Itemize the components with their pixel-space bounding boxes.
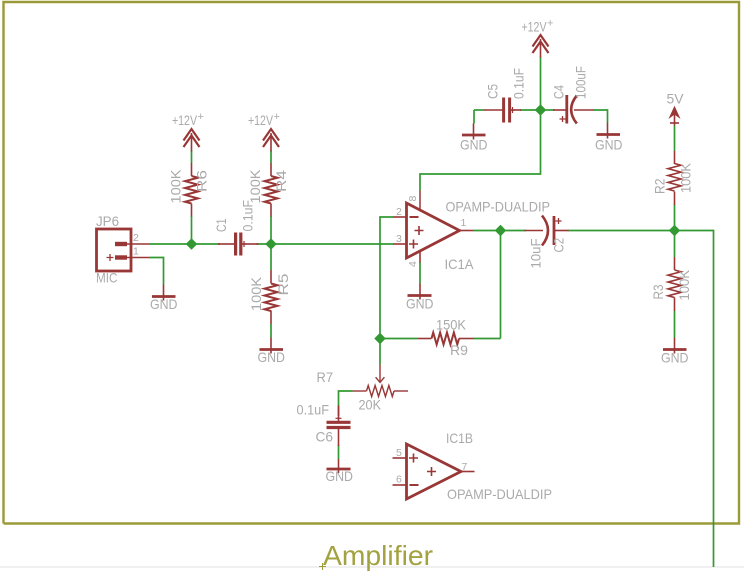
wire 5V to R2 [674,126,676,152]
wire R2 to node3 [674,205,676,231]
pin 2 stub [393,216,407,218]
supply +12V (top) [533,35,549,58]
connector JP6 [97,229,150,271]
svg-text:JP6: JP6 [96,214,119,229]
svg-text:GND: GND [406,297,434,312]
plus polarity mark [560,116,566,122]
frame bottom faint line [0,566,744,568]
wire C1 to op-amp pin3 [257,243,394,245]
svg-text:100K: 100K [169,170,184,204]
supply +12V (R4) [263,129,279,152]
pin 7 stub [461,471,475,473]
wire R3 to GND [674,311,676,338]
svg-text:150K: 150K [436,318,466,333]
svg-text:OPAMP-DUALDIP: OPAMP-DUALDIP [447,487,552,502]
svg-text:R6: R6 [195,170,210,192]
svg-text:5V: 5V [667,92,685,107]
wire C5 corner down to GND [473,110,475,124]
resistor R2 [668,151,681,205]
title origin cross [319,563,326,570]
svg-text:100K: 100K [677,270,692,301]
svg-text:R9: R9 [450,343,468,358]
svg-text:+: + [274,111,280,123]
resistor R3 [668,257,681,311]
svg-text:C4: C4 [552,85,567,99]
svg-text:+12V: +12V [522,20,548,35]
plus mark pin3 [409,240,418,249]
pin 1 stub [460,230,474,232]
svg-text:0.1uF: 0.1uF [512,68,527,99]
wiper arrow [379,365,381,383]
wire node1 up to R6 [191,216,193,244]
svg-text:C2: C2 [552,238,567,253]
svg-text:4: 4 [407,261,419,267]
wire node2 up to R4 [270,216,272,244]
svg-text:7: 7 [462,461,468,473]
pin 6 stub [393,484,407,486]
ground GND (R5) [260,338,284,354]
wire R9 left [380,338,418,340]
svg-text:100uF: 100uF [574,66,589,99]
plus mark center [427,467,436,476]
wire R4 top to +12V [270,151,272,164]
resistor R5 [265,270,278,324]
wire C6 bottom to GND [338,445,340,459]
svg-text:+12V: +12V [248,113,274,128]
svg-text:IC1A: IC1A [445,257,475,272]
node junction at op-amp output [495,225,505,235]
op-amp IC1B [393,444,475,499]
resistor R9 [418,333,474,345]
wire op-amp pin2 net [380,217,393,365]
wire +12V top down to node4 and to pin8 [420,57,541,191]
node junction at R4/R5/main [266,239,276,249]
capacitor C2 polarized [525,216,569,246]
wire R7 left to C6 [339,391,353,416]
svg-text:R5: R5 [276,273,291,295]
pin 4 stub [419,251,421,263]
svg-text:C6: C6 [316,430,334,445]
svg-text:+: + [547,18,553,30]
supply +12V (R6) [184,129,200,152]
wire JP6 pin1 [150,258,164,285]
resistor R6 [185,163,198,217]
svg-text:OPAMP-DUALDIP: OPAMP-DUALDIP [446,200,551,215]
svg-text:+: + [198,111,204,123]
ground GND (JP6 pin1) [152,285,176,301]
ground GND (R3) [663,338,687,354]
node junction R2/R3/C2 [669,225,679,235]
capacitor C4 polarized [553,95,594,124]
wire R9 feedback vertical [500,231,502,339]
wire C2 to node3 [568,230,675,232]
wire node4 left to C5 [474,109,485,111]
node junction feedback R9 [375,333,385,343]
svg-text:GND: GND [595,138,623,153]
svg-text:2: 2 [133,232,139,244]
wire R9 right [474,338,501,340]
wire node3 right then down [675,231,714,568]
wire C5 right to node4 [520,109,541,111]
wire op-amp pin4 to GND [419,262,421,284]
svg-text:GND: GND [661,351,689,366]
svg-text:IC1B: IC1B [446,431,473,446]
wire C4 right corner [593,110,608,123]
wire node3 down to R3 [674,231,676,258]
svg-text:GND: GND [150,297,178,312]
wire R5 bottom to GND [270,324,272,338]
svg-text:GND: GND [460,138,488,153]
minus mark pin6 [410,484,419,486]
minus mark pin2 [410,216,419,218]
svg-text:20K: 20K [359,398,382,413]
pin 8 stub [419,191,421,210]
ground GND (C6) [327,459,351,473]
svg-text:2: 2 [396,206,402,218]
svg-text:0.1uF: 0.1uF [297,403,330,418]
plus mark pin5 [409,454,418,463]
svg-text:1: 1 [461,217,467,229]
svg-text:100K: 100K [679,163,694,193]
svg-text:3: 3 [396,233,402,245]
wire output to C2 [474,230,527,232]
plus polarity mark [556,218,562,224]
ground GND (C5) [462,124,486,140]
svg-text:R4: R4 [274,170,289,192]
plus mark center [415,226,424,235]
ground GND (C4) [597,123,621,139]
wire R6 top to +12V [191,151,193,164]
wire node4 right to C4 [541,109,555,111]
svg-text:R3: R3 [651,284,666,299]
svg-text:10uF: 10uF [529,239,544,269]
svg-text:+12V: +12V [172,113,198,128]
svg-text:MIC: MIC [96,271,118,286]
svg-text:C1: C1 [214,219,229,233]
pin labels IC1A [133,196,468,486]
svg-text:R7: R7 [317,370,334,385]
svg-text:100K: 100K [248,170,263,204]
capacitor C1 [218,233,259,256]
svg-text:1: 1 [133,246,139,258]
svg-text:0.1uF: 0.1uF [241,200,256,232]
svg-text:GND: GND [258,350,286,365]
ground GND (op-amp pin4) [408,284,432,300]
node junction at R6/main [186,239,196,249]
svg-text:C5: C5 [486,84,501,99]
svg-text:R2: R2 [653,179,668,195]
supply 5V [670,107,680,126]
svg-text:GND: GND [326,469,354,484]
pin 3 stub [393,243,407,245]
capacitor C5 [484,98,521,123]
op-amp IC1A [393,191,474,263]
pin 5 stub [393,457,407,459]
svg-text:5: 5 [396,447,402,459]
svg-text:6: 6 [396,474,402,486]
svg-text:100K: 100K [249,277,264,311]
svg-text:Amplifier: Amplifier [323,540,433,571]
wire main row JP6 pin2 to C1 [150,243,221,245]
svg-text:8: 8 [407,196,419,202]
capacitor C6 [327,406,351,447]
wire node2 down to R5 [270,244,272,270]
node junction +12V caps [535,105,545,115]
potentiometer R7 [353,365,409,397]
resistor R4 [265,163,278,217]
